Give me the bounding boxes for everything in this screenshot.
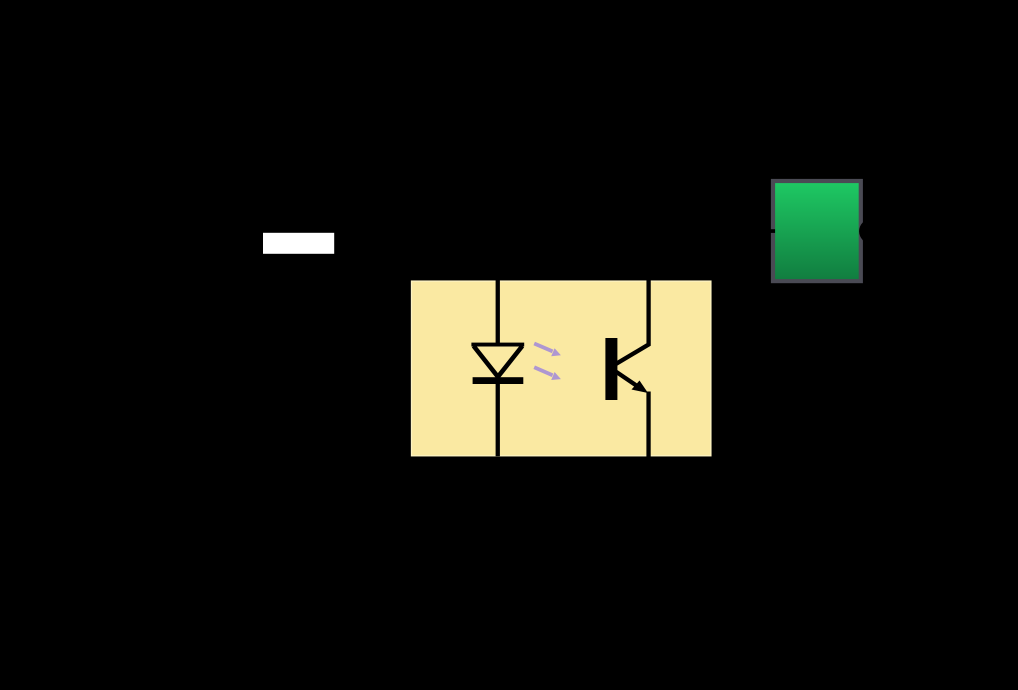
resistor R1 (white body, outline hidden on black) [263, 233, 334, 254]
wire (emitter, exits bottom of U1) [646, 392, 650, 457]
optocoupler U1 body [412, 281, 711, 456]
light arrow 1 [534, 344, 561, 357]
wire (collector, from top of U1) [615, 280, 649, 365]
diode D cathode bar [473, 377, 524, 384]
LED LED1 (green body with dark border) [762, 179, 884, 283]
wire (LED anode, enters top of U1) [496, 280, 500, 344]
light arrow 2 [534, 367, 561, 380]
node (junction dot at LED1 right pin, under green fill) [859, 219, 884, 244]
transistor emitter with arrow [615, 371, 640, 388]
wire (LED1 left pin, black over border) [762, 229, 776, 233]
diode D triangle [474, 346, 523, 377]
diode D (LED inside optocoupler): anode bar [471, 343, 524, 347]
wire (LED cathode, exits bottom of U1) [496, 384, 500, 456]
phototransistor Q base bar [605, 338, 617, 400]
